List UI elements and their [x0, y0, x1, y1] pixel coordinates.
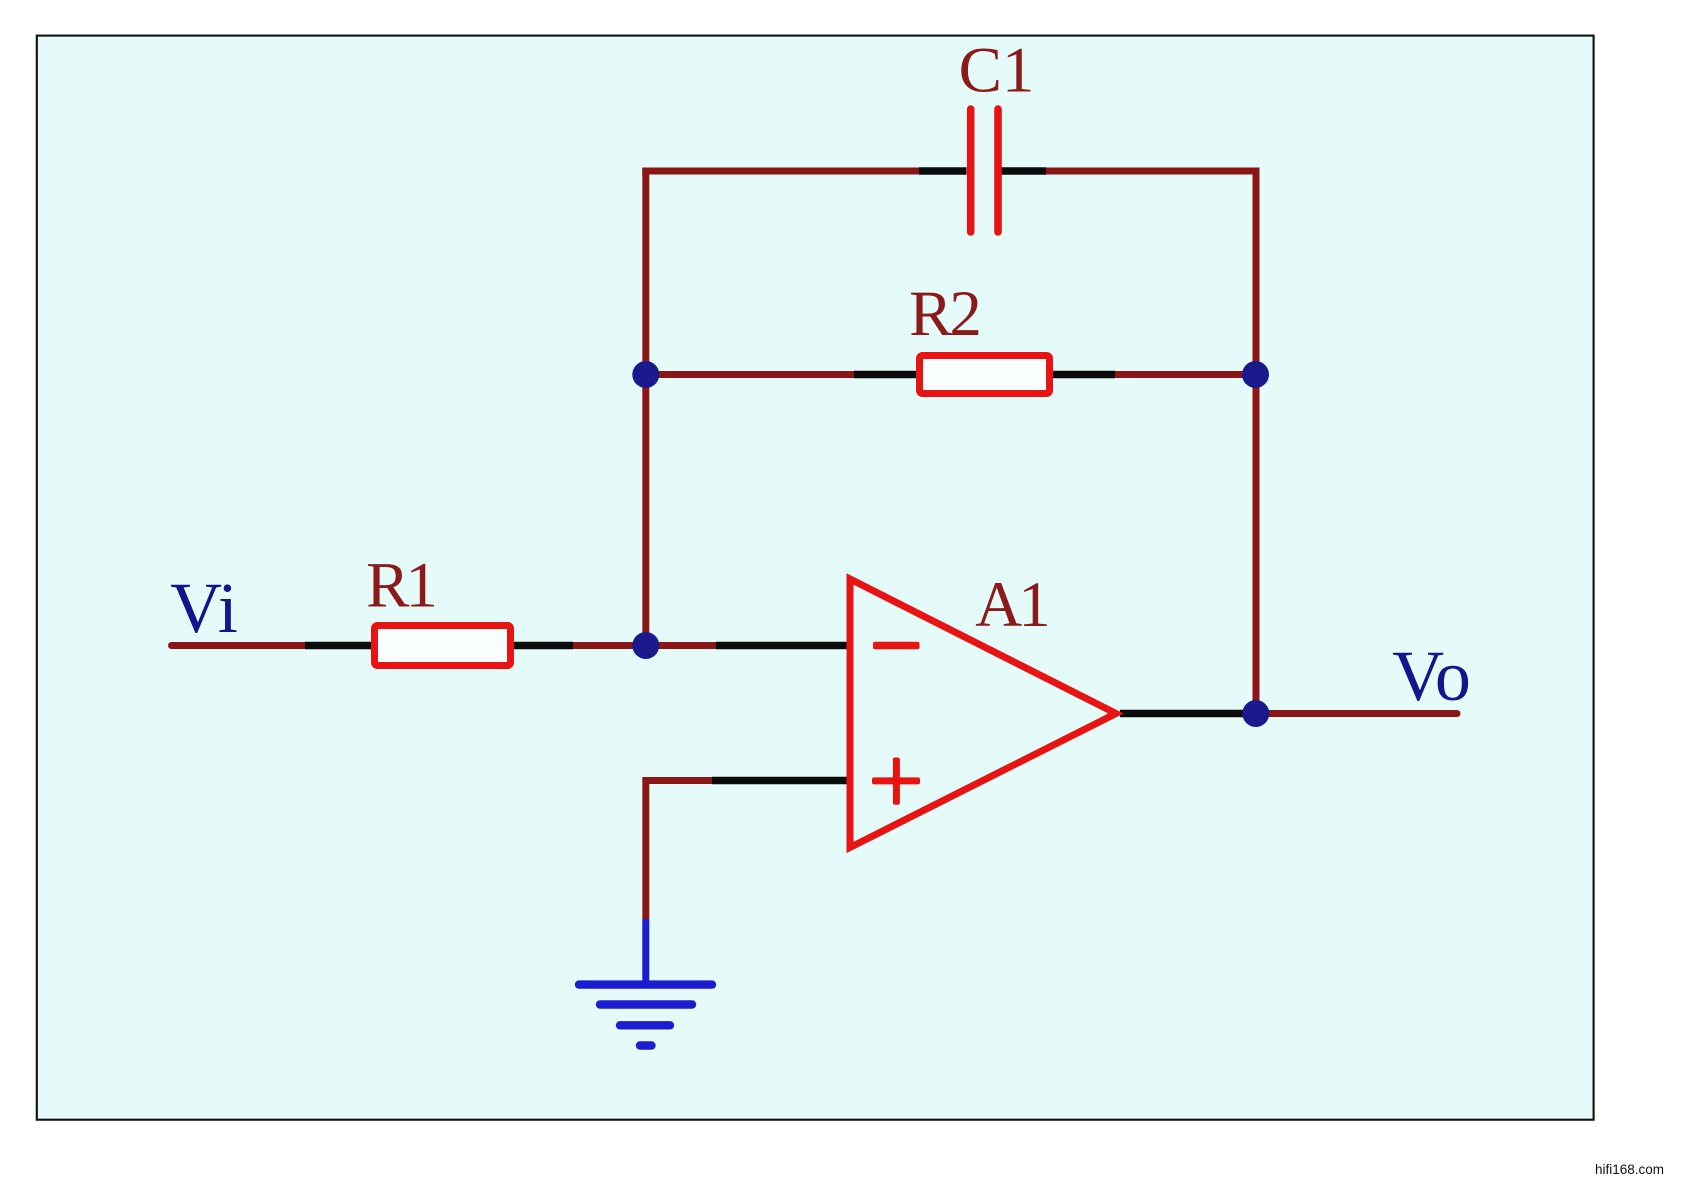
svg-text:Vi: Vi	[170, 568, 238, 648]
svg-text:hifi168.com: hifi168.com	[1595, 1162, 1664, 1177]
svg-text:A1: A1	[975, 569, 1047, 641]
svg-text:R2: R2	[909, 278, 979, 350]
svg-text:C1: C1	[959, 35, 1035, 107]
svg-text:Vo: Vo	[1392, 636, 1471, 716]
svg-text:R1: R1	[366, 550, 434, 622]
